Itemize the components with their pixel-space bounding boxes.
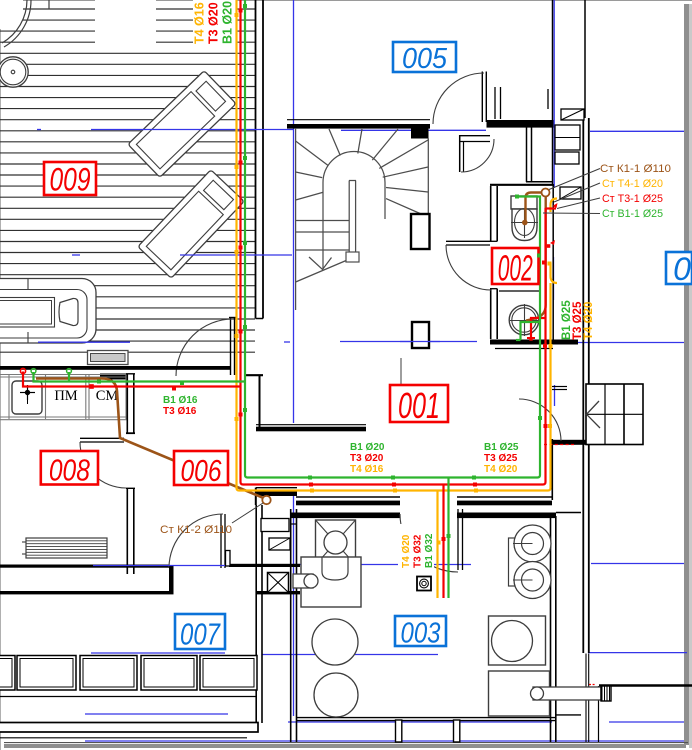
svg-text:Т3 Ø16: Т3 Ø16 [163,406,197,417]
svg-text:Т3 Ø20: Т3 Ø20 [350,453,384,464]
svg-text:Ст Т4-1 Ø20: Ст Т4-1 Ø20 [602,178,663,190]
svg-text:Ст К1-2 Ø110: Ст К1-2 Ø110 [160,524,232,536]
svg-text:0: 0 [673,251,691,287]
svg-text:В1 Ø20: В1 Ø20 [221,1,235,44]
svg-text:002: 002 [498,248,533,289]
svg-text:009: 009 [50,162,91,198]
svg-text:В1 Ø25: В1 Ø25 [484,442,519,453]
svg-text:006: 006 [181,453,223,488]
svg-text:Ст Т3-1 Ø25: Ст Т3-1 Ø25 [602,193,663,205]
svg-text:007: 007 [180,617,221,652]
svg-text:003: 003 [401,618,441,650]
svg-text:Т3 Ø32: Т3 Ø32 [413,534,424,568]
svg-text:Т3 Ø20: Т3 Ø20 [207,2,221,44]
svg-text:Т4 Ø20: Т4 Ø20 [484,464,518,475]
svg-text:Т4 Ø20: Т4 Ø20 [583,302,595,340]
svg-text:008: 008 [49,453,91,488]
svg-text:Т3 Ø25: Т3 Ø25 [484,453,518,464]
svg-text:В1 Ø32: В1 Ø32 [424,533,435,568]
svg-text:СМ: СМ [96,388,119,404]
svg-text:Т4 Ø16: Т4 Ø16 [350,464,384,475]
svg-text:ПМ: ПМ [54,388,77,404]
svg-text:005: 005 [402,43,448,75]
svg-text:В1 Ø16: В1 Ø16 [163,395,198,406]
svg-text:Ст К1-1 Ø110: Ст К1-1 Ø110 [600,163,671,175]
svg-text:В1 Ø20: В1 Ø20 [350,442,385,453]
svg-text:Т4 Ø16: Т4 Ø16 [193,2,207,44]
svg-text:001: 001 [398,385,440,426]
svg-text:Т4 Ø20: Т4 Ø20 [401,534,412,568]
svg-text:Ст В1-1 Ø25: Ст В1-1 Ø25 [602,208,663,220]
